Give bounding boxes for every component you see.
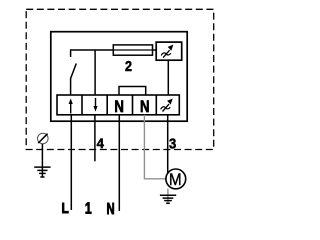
svg-text:1: 1	[85, 199, 92, 217]
svg-text:N: N	[107, 200, 115, 217]
svg-text:3: 3	[169, 136, 177, 152]
svg-text:L: L	[62, 200, 69, 217]
svg-text:2: 2	[125, 58, 132, 74]
svg-text:M: M	[169, 172, 182, 190]
svg-text:N: N	[114, 97, 124, 116]
svg-text:4: 4	[97, 136, 105, 151]
svg-text:N: N	[140, 97, 150, 116]
